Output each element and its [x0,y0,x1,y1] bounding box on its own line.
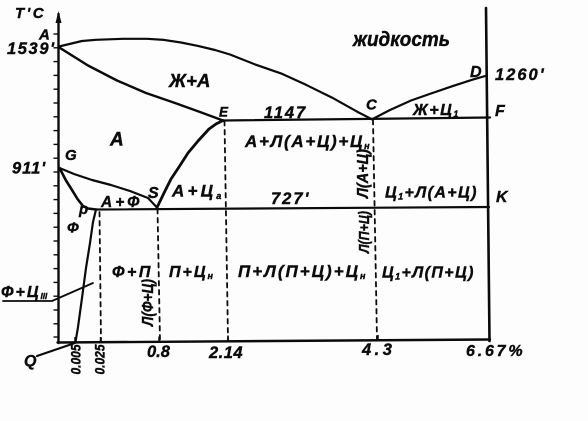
svg-text:F: F [495,103,506,120]
svg-text:А+Ца: А+Ца [171,182,221,202]
svg-text:S: S [148,185,159,202]
dashed 4.3 line [373,120,377,340]
svg-text:Ф+П: Ф+П [112,264,153,281]
svg-text:C: C [366,97,378,114]
y-axis [57,14,59,343]
svg-text:1539': 1539' [7,40,56,58]
svg-text:Ж+А: Ж+А [168,70,210,91]
727 eutectoid line P-K [96,207,489,210]
svg-text:Л(Ф+Ц): Л(Ф+Ц) [140,279,157,327]
dashed 2.14 line [225,121,229,340]
G-S curve [60,168,158,208]
x-axis ticks [75,335,378,342]
svg-text:1260': 1260' [495,66,546,84]
svg-text:911': 911' [12,160,46,178]
svg-text:K: K [496,189,509,206]
svg-text:Л(А+Ц): Л(А+Ц) [355,149,372,199]
svg-text:Q: Q [24,353,37,370]
svg-text:П+Цн: П+Цн [169,264,214,281]
x-axis [58,340,491,343]
svg-text:Ф: Ф [67,220,79,237]
svg-text:1147: 1147 [264,104,307,122]
G-P curve [60,168,97,210]
Q leader line [37,343,75,356]
svg-text:G: G [65,147,77,164]
svg-text:D: D [470,64,482,81]
dashed 0.8 line [158,209,161,341]
svg-text:2.14: 2.14 [208,344,243,362]
solidus A-E [59,47,223,120]
svg-text:А: А [109,130,124,151]
svg-text:А+Ф: А+Ф [100,194,142,211]
svg-text:0.005: 0.005 [69,344,84,374]
dashed 0.025 line [100,212,102,341]
svg-text:Ц1+Л(А+Ц): Ц1+Л(А+Ц) [385,185,478,202]
svg-text:4.3: 4.3 [361,341,395,359]
1147 eutectic line E-F [223,118,490,121]
y-axis arrow [56,11,62,23]
svg-text:727': 727' [271,190,310,208]
y-axis ticks [54,34,59,337]
svg-text:Л(П+Ц): Л(П+Ц) [356,211,373,254]
svg-text:П+Л(П+Ц)+Цн: П+Л(П+Ц)+Цн [238,262,366,281]
wire [3,8,490,356]
svg-text:0.8: 0.8 [147,343,171,361]
svg-text:Ц1+Л(П+Ц): Ц1+Л(П+Ц) [382,265,475,282]
svg-text:Ж+Ц1: Ж+Ц1 [412,102,458,119]
svg-text:p: p [78,201,88,218]
svg-text:жидкость: жидкость [352,29,450,51]
svg-text:Ф+ЦIII: Ф+ЦIII [1,284,48,301]
svg-text:А+Л(А+Ц)+Цн: А+Л(А+Ц)+Цн [244,132,370,151]
F+Cm leader line [3,283,93,301]
liquidus A-C [59,39,372,120]
right border DFK line [486,8,490,341]
svg-text:6.67%: 6.67% [466,343,525,360]
S-E curve [157,121,223,208]
svg-text:0.025: 0.025 [93,344,108,374]
P-Q curve [76,210,97,343]
svg-text:E: E [219,105,229,120]
svg-text:Т'С: Т'С [15,5,46,22]
liquidus C-D [372,76,487,120]
